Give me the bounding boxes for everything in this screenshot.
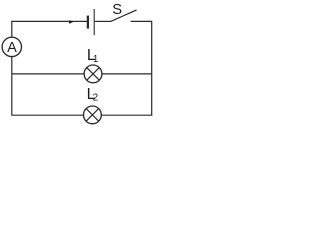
wire: battery to switch contact — [95, 20, 111, 22]
wire: switch right contact to top-right corner, right vertical — [131, 21, 152, 115]
battery positive plate (long thin) — [93, 9, 95, 35]
switch S lever (open) — [110, 10, 136, 22]
svg-text:1: 1 — [93, 54, 98, 65]
lamp L1 circle — [84, 65, 102, 83]
wire: L1 branch right — [102, 73, 152, 75]
svg-text:2: 2 — [93, 93, 98, 104]
lamp L1 cross — [87, 68, 100, 81]
battery negative plate (short thick) — [87, 16, 89, 29]
svg-text:S: S — [112, 2, 122, 18]
lamp L2 cross — [86, 109, 99, 122]
ammeter A circle — [2, 37, 21, 56]
lamp L2 circle — [84, 106, 102, 124]
current direction arrow — [69, 20, 73, 24]
wire: L1 branch left — [12, 73, 84, 75]
wire: top-left corner, left vertical upper + top wire to battery — [12, 21, 88, 37]
wire: bottom right segment (corner to lamp L2) — [101, 114, 152, 116]
wire: bottom left segment (lamp L2 to bottom-left corner) + left vertical lower — [12, 57, 84, 115]
svg-text:A: A — [7, 40, 17, 56]
